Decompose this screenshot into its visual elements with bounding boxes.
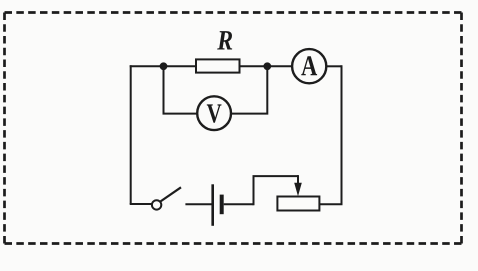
- wire to switch: [130, 203, 152, 205]
- switch S blade: [160, 187, 181, 201]
- wiper arrowhead: [294, 183, 302, 196]
- wire voltmeter branch left: [164, 66, 198, 113]
- wire bottom right to rheostat: [320, 203, 343, 205]
- battery long plate: [211, 184, 214, 226]
- node left junction: [160, 62, 168, 70]
- wiper arrow stem: [297, 175, 299, 187]
- node right junction: [263, 62, 271, 70]
- battery short plate: [220, 195, 224, 215]
- wire resistor to ammeter: [240, 65, 293, 67]
- wire switch to battery: [185, 203, 211, 205]
- rheostat body: [277, 197, 319, 211]
- wire left vertical: [130, 65, 132, 204]
- voltmeter V: [197, 96, 231, 130]
- switch S pivot: [152, 200, 161, 209]
- wire right vertical: [341, 65, 343, 204]
- wire voltmeter branch right: [231, 66, 267, 113]
- wire battery to riser: [224, 203, 254, 205]
- wire top-left horizontal: [130, 65, 197, 67]
- wire ammeter to right corner: [326, 65, 341, 67]
- label R: [217, 31, 232, 49]
- wire riser and wiper feed: [254, 176, 299, 205]
- ammeter A: [292, 49, 326, 83]
- resistor R: [196, 59, 240, 72]
